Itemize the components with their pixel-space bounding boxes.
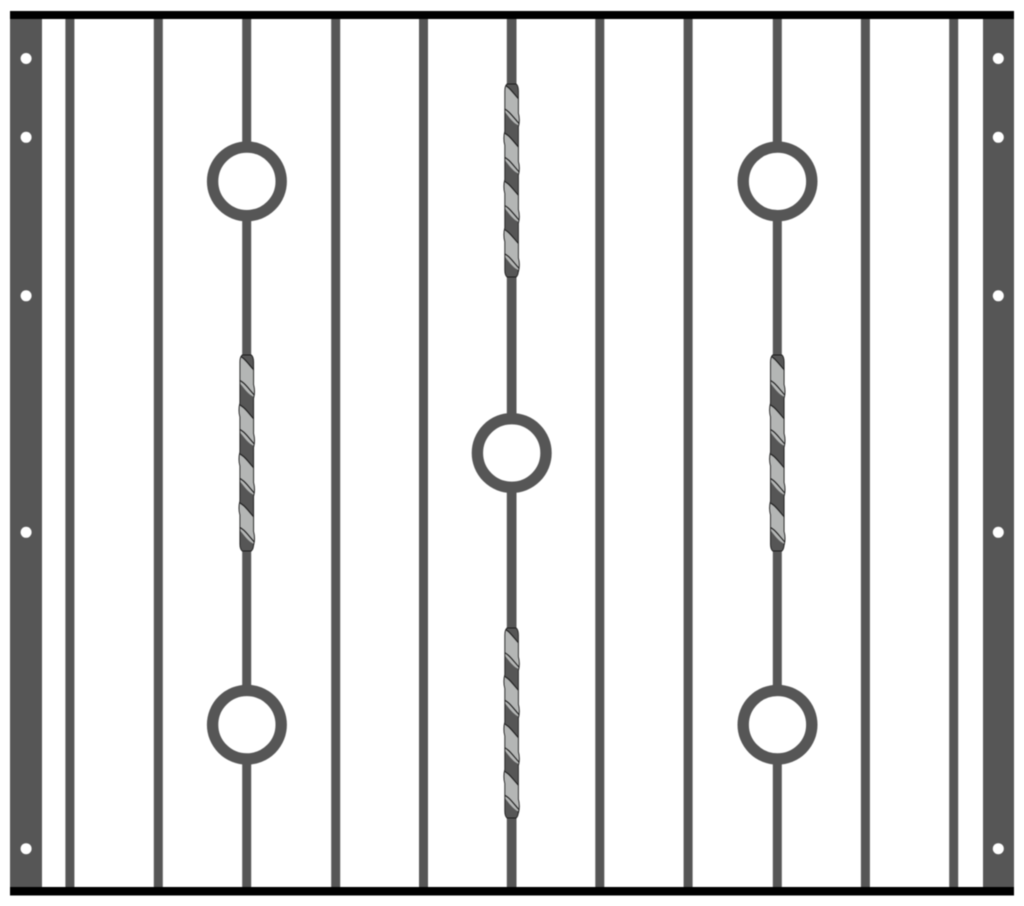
picket bar 4 [331, 19, 340, 887]
left stile screw hole 3 [21, 290, 32, 301]
top rail (header bar) [10, 11, 1014, 19]
right stile screw hole 5 [993, 843, 1004, 854]
right side stile [983, 11, 1014, 895]
bottom rail (sill bar) [10, 887, 1014, 896]
picket bar 8 [684, 19, 693, 887]
picket bar 10 [861, 19, 870, 887]
right stile screw hole 2 [993, 132, 1004, 143]
right stile screw hole 3 [993, 290, 1004, 301]
left side stile [10, 11, 42, 895]
left stile screw hole 1 [21, 53, 32, 64]
ring ornament bottom-right on bar 9 [743, 690, 812, 759]
picket bar 2 [154, 19, 163, 887]
upper twisted section on bar 6 [501, 35, 522, 512]
picket bar 11 [949, 19, 958, 887]
picket bar 3 [242, 19, 251, 887]
ring ornament bottom-left on bar 3 [213, 690, 282, 759]
right stile screw hole 1 [993, 53, 1004, 64]
picket bar 6 [507, 19, 517, 887]
picket bar 5 [419, 19, 428, 887]
twisted section on bar 9 [767, 306, 788, 791]
left stile screw hole 4 [21, 527, 32, 538]
twisted section on bar 3 [236, 306, 257, 791]
left stile screw hole 5 [21, 843, 32, 854]
picket bar 9 [773, 19, 782, 887]
ring ornament center on bar 6 [477, 419, 546, 488]
ring ornament top-left on bar 3 [213, 147, 282, 216]
ring ornament top-right on bar 9 [743, 147, 812, 216]
lower twisted section on bar 6 [501, 580, 522, 906]
picket bar 7 [595, 19, 604, 887]
picket bar 1 [65, 19, 74, 887]
right stile screw hole 4 [993, 527, 1004, 538]
left stile screw hole 2 [21, 132, 32, 143]
